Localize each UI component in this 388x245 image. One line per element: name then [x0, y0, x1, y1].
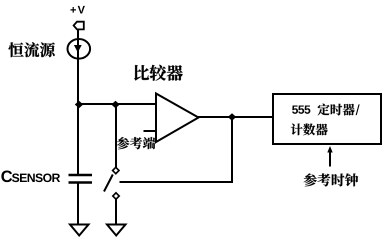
- reference clock arrow shaft: [329, 150, 331, 167]
- node A junction dot: [75, 101, 83, 108]
- label 计数器: [291, 123, 328, 135]
- current source I1 circle: [68, 39, 91, 59]
- capacitor CSENSOR top plate: [69, 174, 93, 177]
- switch S1 bottom contact: [113, 193, 119, 199]
- switch S1 blade: [104, 175, 113, 192]
- wire current source to node A: [77, 58, 79, 105]
- wire node A to comparator + input: [78, 103, 156, 105]
- wire comparator output to 555 box: [198, 116, 273, 118]
- current source internal wire: [77, 39, 79, 59]
- label 参考时钟 (reference clock): [304, 173, 358, 186]
- label +V: [70, 6, 84, 14]
- label CSENSOR: [1, 170, 60, 182]
- wire +V terminal to current source: [77, 29, 79, 40]
- ground (left): [70, 225, 89, 236]
- wire feedback: node C down: [231, 117, 233, 183]
- wire node A to capacitor top: [77, 105, 79, 175]
- node B junction dot: [111, 101, 119, 108]
- wire node B down to switch top contact: [115, 104, 117, 168]
- switch S1 top contact: [113, 167, 119, 173]
- +V power terminal symbol: [74, 22, 84, 30]
- label 恒流源 (constant current source): [8, 42, 54, 57]
- wire switch bottom contact to right ground: [115, 199, 117, 227]
- current source arrow (points down): [74, 45, 82, 53]
- label 比较器 (comparator): [134, 65, 182, 81]
- 555 timer/counter box: [273, 94, 381, 144]
- label slash after 定时器: [356, 104, 360, 115]
- label 定时器: [318, 104, 355, 116]
- ground (right): [107, 225, 126, 236]
- reference clock arrowhead: [327, 146, 332, 153]
- wire feedback: bottom run to switch: [120, 181, 234, 183]
- node C junction dot: [228, 113, 236, 120]
- label 555: [292, 105, 310, 113]
- comparator inverting input stub: [144, 130, 157, 132]
- capacitor CSENSOR bottom plate: [69, 181, 93, 184]
- op-amp comparator triangle: [156, 94, 199, 143]
- wire capacitor to left ground: [77, 182, 79, 226]
- label 参考端 (reference terminal): [117, 137, 155, 149]
